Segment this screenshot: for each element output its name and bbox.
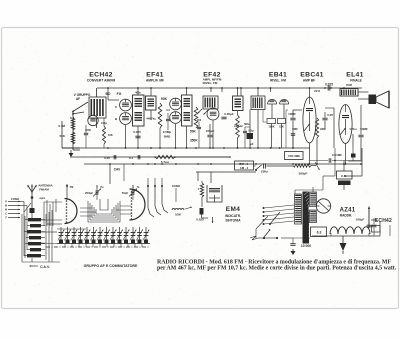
potentiometer VOLUME	[285, 152, 304, 160]
svg-text:50K: 50K	[59, 134, 65, 138]
svg-text:50μ: 50μ	[248, 129, 253, 133]
arrow contact right	[185, 207, 192, 209]
svg-text:EL41: EL41	[346, 71, 363, 78]
trimmer row right	[132, 227, 134, 244]
wire box to switch	[254, 165, 256, 167]
svg-text:μF: μF	[250, 142, 254, 146]
capacitor band small b	[197, 126, 201, 128]
resistor 10K osc	[102, 126, 105, 144]
switch contact after AM/FM box	[256, 165, 262, 170]
tube AZ41	[316, 199, 330, 213]
wire nested bus U1	[88, 201, 120, 222]
chassis dash line	[46, 246, 150, 248]
wire chassis bottom rail	[84, 163, 362, 165]
svg-text:10K: 10K	[108, 133, 113, 137]
arrow B+ up	[368, 207, 370, 229]
svg-text:6.3: 6.3	[317, 231, 322, 235]
svg-text:1000: 1000	[175, 213, 181, 217]
svg-text:EM4: EM4	[226, 206, 241, 213]
transformer core	[303, 192, 310, 244]
svg-text:0.25: 0.25	[327, 113, 333, 117]
wire mains to switch	[250, 236, 258, 240]
arrow discriminator a	[204, 110, 209, 115]
switch wafer arc 2	[130, 189, 146, 220]
capacitor 100uF	[207, 134, 212, 136]
capacitor band small a	[166, 118, 170, 120]
tube EF41 sections	[170, 98, 182, 110]
voltage selector taps	[264, 205, 294, 208]
wire antenna lead	[31, 192, 33, 208]
svg-text:10 000: 10 000	[301, 244, 311, 248]
wire fingers top	[147, 178, 149, 186]
svg-text:7000: 7000	[346, 83, 353, 87]
svg-text:0.5Mμ: 0.5Mμ	[163, 130, 172, 134]
power switch contacts	[264, 231, 269, 237]
svg-text:0.1M: 0.1M	[58, 124, 65, 128]
wire B+ top rail	[97, 87, 362, 89]
svg-text:22K: 22K	[320, 127, 326, 131]
capacitor 100uF b	[372, 224, 377, 226]
arrow S.1 pickup	[72, 112, 84, 114]
svg-text:CONVERT AM/FM: CONVERT AM/FM	[87, 78, 116, 82]
svg-text:1MF: 1MF	[292, 127, 298, 131]
oscillator coil L1	[89, 97, 106, 118]
switch contact arrows left column	[8, 201, 20, 203]
wire AVC rail	[62, 147, 310, 149]
wire nested bus U5	[90, 203, 118, 220]
IF transformer T3	[233, 96, 244, 111]
wire trimmer bus	[57, 243, 150, 245]
filter choke winding	[330, 227, 370, 234]
wire right edge down	[360, 105, 362, 121]
tube EF42	[207, 108, 219, 120]
svg-text:0.025: 0.025	[133, 130, 141, 134]
svg-text:M: M	[5, 209, 7, 212]
capacitor electrolytic blob	[351, 154, 356, 158]
antenna FM/AM	[28, 185, 33, 192]
ratio detector transformer T4	[251, 96, 265, 110]
switch box FM-2 AM-2	[235, 161, 254, 170]
svg-text:250pF: 250pF	[85, 191, 93, 195]
svg-text:5.7κω: 5.7κω	[161, 160, 170, 164]
wire wafer feed FM	[66, 184, 68, 200]
ground left	[62, 147, 80, 149]
svg-text:0.025: 0.025	[325, 83, 333, 87]
resistor 1M EM4 grid	[200, 183, 203, 197]
tube EM4 symbol	[207, 185, 222, 202]
wire 0.25 branch down	[333, 108, 335, 148]
wire mains riser	[255, 229, 257, 238]
capacitor 23K coupling	[263, 163, 265, 168]
svg-text:RIVEL. FM: RIVEL. FM	[270, 78, 286, 82]
svg-text:4467κς: 4467κς	[146, 117, 156, 121]
svg-text:VOLUME: VOLUME	[288, 154, 300, 158]
switch finger 1	[148, 186, 154, 217]
svg-text:FINALE: FINALE	[350, 78, 362, 82]
svg-text:ECH42: ECH42	[375, 218, 392, 224]
wire bottom rail power	[281, 237, 293, 239]
wire stub x124	[123, 164, 125, 181]
wire antenna branch diagonal	[24, 203, 31, 212]
svg-text:AMPLIF. MF: AMPLIF. MF	[146, 78, 164, 82]
wire transformer top feed	[334, 148, 336, 176]
capacitor 10000pF	[290, 243, 295, 245]
wire EB down links	[262, 110, 264, 122]
antenna coupling blob	[30, 208, 35, 213]
svg-text:RIVEL. FM: RIVEL. FM	[203, 81, 218, 85]
svg-text:EBC41: EBC41	[300, 71, 323, 78]
output transformer T5	[340, 89, 358, 97]
wire trimmer ground ticks	[64, 244, 66, 248]
wire cross links	[80, 207, 92, 209]
tube EB41 diode b	[280, 99, 289, 104]
svg-text:C: C	[5, 213, 7, 216]
resistor 5.7k horizontal	[155, 155, 175, 158]
svg-text:50pF: 50pF	[122, 191, 129, 195]
wire risers varcap	[96, 185, 98, 188]
loudspeaker	[369, 95, 377, 105]
arrow C.A.V.	[30, 265, 37, 267]
capacitor osc grid	[84, 132, 88, 134]
switch finger 3	[162, 186, 168, 213]
svg-text:AF: AF	[76, 97, 80, 101]
wire CAV drop	[109, 164, 111, 184]
trimmer row	[60, 227, 62, 244]
wire mid rail	[70, 156, 230, 158]
svg-text:AM - 2: AM - 2	[240, 166, 249, 170]
svg-text:AMP BF: AMP BF	[303, 78, 315, 82]
arrow to tuner group	[72, 102, 88, 112]
switch finger 2	[155, 186, 161, 215]
junction dots rails	[107, 147, 109, 149]
arrow discriminator b	[198, 109, 202, 113]
svg-text:170ω: 170ω	[349, 127, 357, 131]
wire right edge power	[379, 222, 381, 236]
switch wafer arc 1	[65, 199, 77, 224]
tuner coil stack	[28, 218, 41, 221]
svg-text:360pF: 360pF	[299, 172, 308, 176]
IF transformer T2	[182, 95, 193, 126]
wire ECH42 connections	[107, 88, 109, 100]
svg-text:0.1: 0.1	[129, 156, 134, 160]
svg-text:50K: 50K	[190, 130, 197, 134]
resistor 50K vertical	[194, 107, 198, 128]
tube EB41 diode a	[268, 99, 277, 104]
tube ECH42 triode osc section	[88, 115, 98, 125]
wire nested bus U2	[92, 205, 116, 218]
svg-text:100μF: 100μF	[356, 218, 365, 222]
wire choke rail	[312, 235, 380, 237]
svg-text:C.D.: C.D.	[341, 174, 347, 178]
svg-text:V2.6: V2.6	[314, 89, 321, 93]
coil 1000	[172, 209, 184, 211]
svg-text:RADIO RICORDI - Mod. 618 FM -: RADIO RICORDI - Mod. 618 FM - Ricevitore…	[157, 259, 391, 265]
capacitor band small c	[243, 130, 247, 132]
wire EM4 verticals	[197, 172, 199, 181]
svg-text:0.05: 0.05	[104, 156, 110, 160]
wires coil stack bottom	[22, 261, 60, 263]
wire nested bus U3	[96, 209, 112, 214]
wire nested bus U4	[100, 199, 108, 210]
svg-text:SINTONIA: SINTONIA	[225, 219, 241, 223]
svg-text:αμνο: αμνο	[40, 197, 46, 200]
svg-text:FG: FG	[117, 92, 122, 96]
wires coil stack verticals	[21, 214, 23, 262]
filament winding 6.3 box	[311, 227, 327, 237]
IF transformer T1 (467kc)	[133, 95, 145, 126]
wire left risers	[20, 201, 24, 203]
svg-text:FM/AM: FM/AM	[39, 188, 49, 192]
selector wiper	[270, 212, 280, 224]
svg-text:M: M	[5, 205, 7, 208]
resistor 90K vertical	[158, 103, 162, 128]
transformer primary winding	[295, 194, 302, 224]
svg-text:FM: FM	[70, 186, 73, 189]
box C.D.	[337, 171, 353, 179]
label ECH42 heater	[371, 219, 378, 221]
hum coil under C.D.	[338, 181, 351, 186]
svg-text:RADDR.: RADDR.	[340, 214, 353, 218]
svg-text:23Kκ: 23Kκ	[261, 170, 269, 174]
transformer LV secondary	[310, 210, 317, 223]
ground mains cap	[292, 249, 294, 251]
wire EL41	[345, 144, 347, 165]
tube EL41 envelope	[339, 105, 352, 144]
tube EBC41 envelope	[303, 97, 316, 143]
svg-text:FONO: FONO	[172, 184, 181, 188]
resistor 150K	[267, 119, 276, 124]
svg-text:350K: 350K	[190, 139, 198, 143]
svg-text:EF41: EF41	[146, 71, 163, 78]
wire wafer1 feeds	[55, 199, 57, 212]
transformer HV secondary	[310, 192, 317, 207]
svg-text:90K: 90K	[161, 97, 168, 101]
wire output return	[361, 148, 363, 176]
junction dots top rail	[107, 87, 109, 89]
svg-text:INDICATR.: INDICATR.	[225, 214, 241, 218]
svg-text:10MF: 10MF	[288, 112, 296, 116]
resistor 1M pot	[293, 164, 311, 167]
svg-text:5MΩ: 5MΩ	[164, 135, 171, 139]
svg-text:0.01MF: 0.01MF	[332, 153, 342, 157]
wire left input branch	[61, 121, 63, 148]
svg-text:FONO: FONO	[11, 197, 20, 201]
svg-text:0.05μF: 0.05μF	[224, 112, 234, 116]
svg-text:ECH42: ECH42	[89, 71, 112, 78]
discriminator coil L5	[203, 96, 218, 109]
heater loop box	[372, 226, 381, 233]
svg-text:GRUPPO AF E COMMUTATORE: GRUPPO AF E COMMUTATORE	[84, 264, 138, 268]
resistor 15K	[278, 119, 286, 124]
wire EBC41 plate	[309, 88, 311, 97]
IF transformer T1 FM section	[146, 96, 157, 110]
tube ECH42 triode+heptode sections	[120, 99, 132, 111]
wire left verticals	[43, 202, 45, 226]
ground main filter	[342, 236, 344, 243]
svg-text:per AM 467 kc, MF per FM 10,7: per AM 467 kc, MF per FM 10,7 kc. Medie …	[157, 265, 397, 271]
wire nested bus U6	[94, 207, 114, 216]
svg-text:C.A.V.: C.A.V.	[40, 265, 50, 269]
svg-text:EB41: EB41	[269, 71, 287, 78]
svg-text:CAV: CAV	[114, 168, 121, 172]
svg-text:0.3: 0.3	[166, 108, 170, 112]
wire top rail stubs	[210, 88, 212, 92]
wires EB41	[257, 88, 259, 96]
wire EM4 feed rail	[196, 171, 256, 173]
